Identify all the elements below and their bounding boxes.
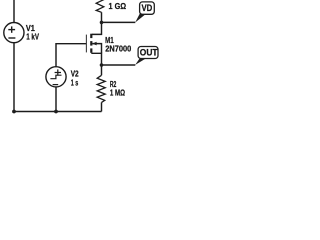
net flag OUT tail (135, 58, 146, 65)
wire bottom rail (14, 111, 102, 113)
net flag VD box (140, 2, 155, 14)
wire M1 source lead down to node OUT (91, 53, 101, 75)
junction node dot VD (100, 21, 104, 25)
V2 plus sign (55, 69, 61, 75)
wire R2 bottom lead (101, 102, 103, 111)
wire node OUT to callout (102, 64, 136, 66)
wire V1 top lead (13, 0, 15, 23)
wire M1 body lead (92, 44, 101, 54)
wire V1 bottom lead (13, 42, 15, 111)
V2 step waveform (50, 75, 61, 79)
V2 minus sign (53, 84, 59, 86)
wire M1 drain lead up to node VD (92, 12, 102, 34)
voltage source V1 (4, 22, 24, 42)
junction node dot V1-rail (12, 110, 16, 114)
svg-text:VD: VD (142, 3, 153, 13)
resistor R1 1 GOhm zigzag (cut at top) (96, 0, 104, 12)
resistor R2 1 MOhm zigzag (97, 75, 105, 102)
wire V2 bottom lead (55, 87, 57, 112)
V1 plus sign (8, 26, 15, 32)
svg-text:1 kV: 1 kV (26, 32, 39, 42)
junction node dot OUT (100, 63, 104, 67)
svg-text:1 s: 1 s (71, 77, 79, 87)
svg-text:1 GΩ: 1 GΩ (109, 1, 127, 11)
svg-text:OUT: OUT (140, 48, 158, 58)
wire V2 top lead to gate (56, 44, 86, 67)
svg-text:1 MΩ: 1 MΩ (110, 88, 125, 98)
transistor M1 channel segments (90, 34, 92, 53)
transistor M1 body arrow (92, 42, 96, 46)
wire node VD to callout (102, 21, 136, 23)
voltage source V2 (step) (46, 67, 66, 87)
net flag OUT box (138, 47, 158, 59)
junction node dot V2-rail (54, 110, 58, 114)
svg-text:2N7000: 2N7000 (105, 44, 131, 54)
net flag VD tail (135, 14, 146, 23)
transistor M1 gate bar (85, 35, 87, 53)
V1 minus sign (8, 37, 15, 39)
